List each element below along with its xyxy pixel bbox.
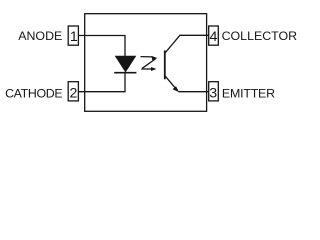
- LED D1 cathode bar: [114, 72, 136, 74]
- Q1 emitter arrowhead: [173, 86, 180, 92]
- light arrow lower: [141, 67, 156, 71]
- wire collector to pin4: [180, 34, 209, 36]
- LED D1 anode triangle: [115, 56, 135, 72]
- Q1 emitter diagonal: [165, 76, 177, 90]
- svg-text:4: 4: [209, 29, 217, 45]
- wire pin1 to LED anode: [78, 36, 125, 57]
- svg-text:CATHODE: CATHODE: [5, 87, 62, 101]
- svg-text:3: 3: [209, 86, 217, 102]
- phototransistor Q1 base bar: [164, 50, 166, 79]
- pin 1 box: [68, 26, 78, 45]
- pin 4 box: [209, 26, 219, 45]
- optocoupler package outline U1: [85, 14, 207, 112]
- svg-text:2: 2: [69, 86, 77, 102]
- pin 3 box: [209, 82, 219, 101]
- Q1 collector diagonal: [165, 35, 180, 53]
- pin 2 box: [68, 82, 78, 101]
- svg-text:1: 1: [70, 29, 78, 45]
- svg-text:COLLECTOR: COLLECTOR: [222, 29, 298, 43]
- light arrow upper: [141, 56, 158, 60]
- svg-text:EMITTER: EMITTER: [222, 87, 275, 101]
- svg-text:ANODE: ANODE: [18, 29, 62, 43]
- wire emitter to pin3: [179, 91, 209, 93]
- wire LED cathode to pin2: [78, 73, 125, 92]
- light arrow diagonal: [142, 59, 155, 68]
